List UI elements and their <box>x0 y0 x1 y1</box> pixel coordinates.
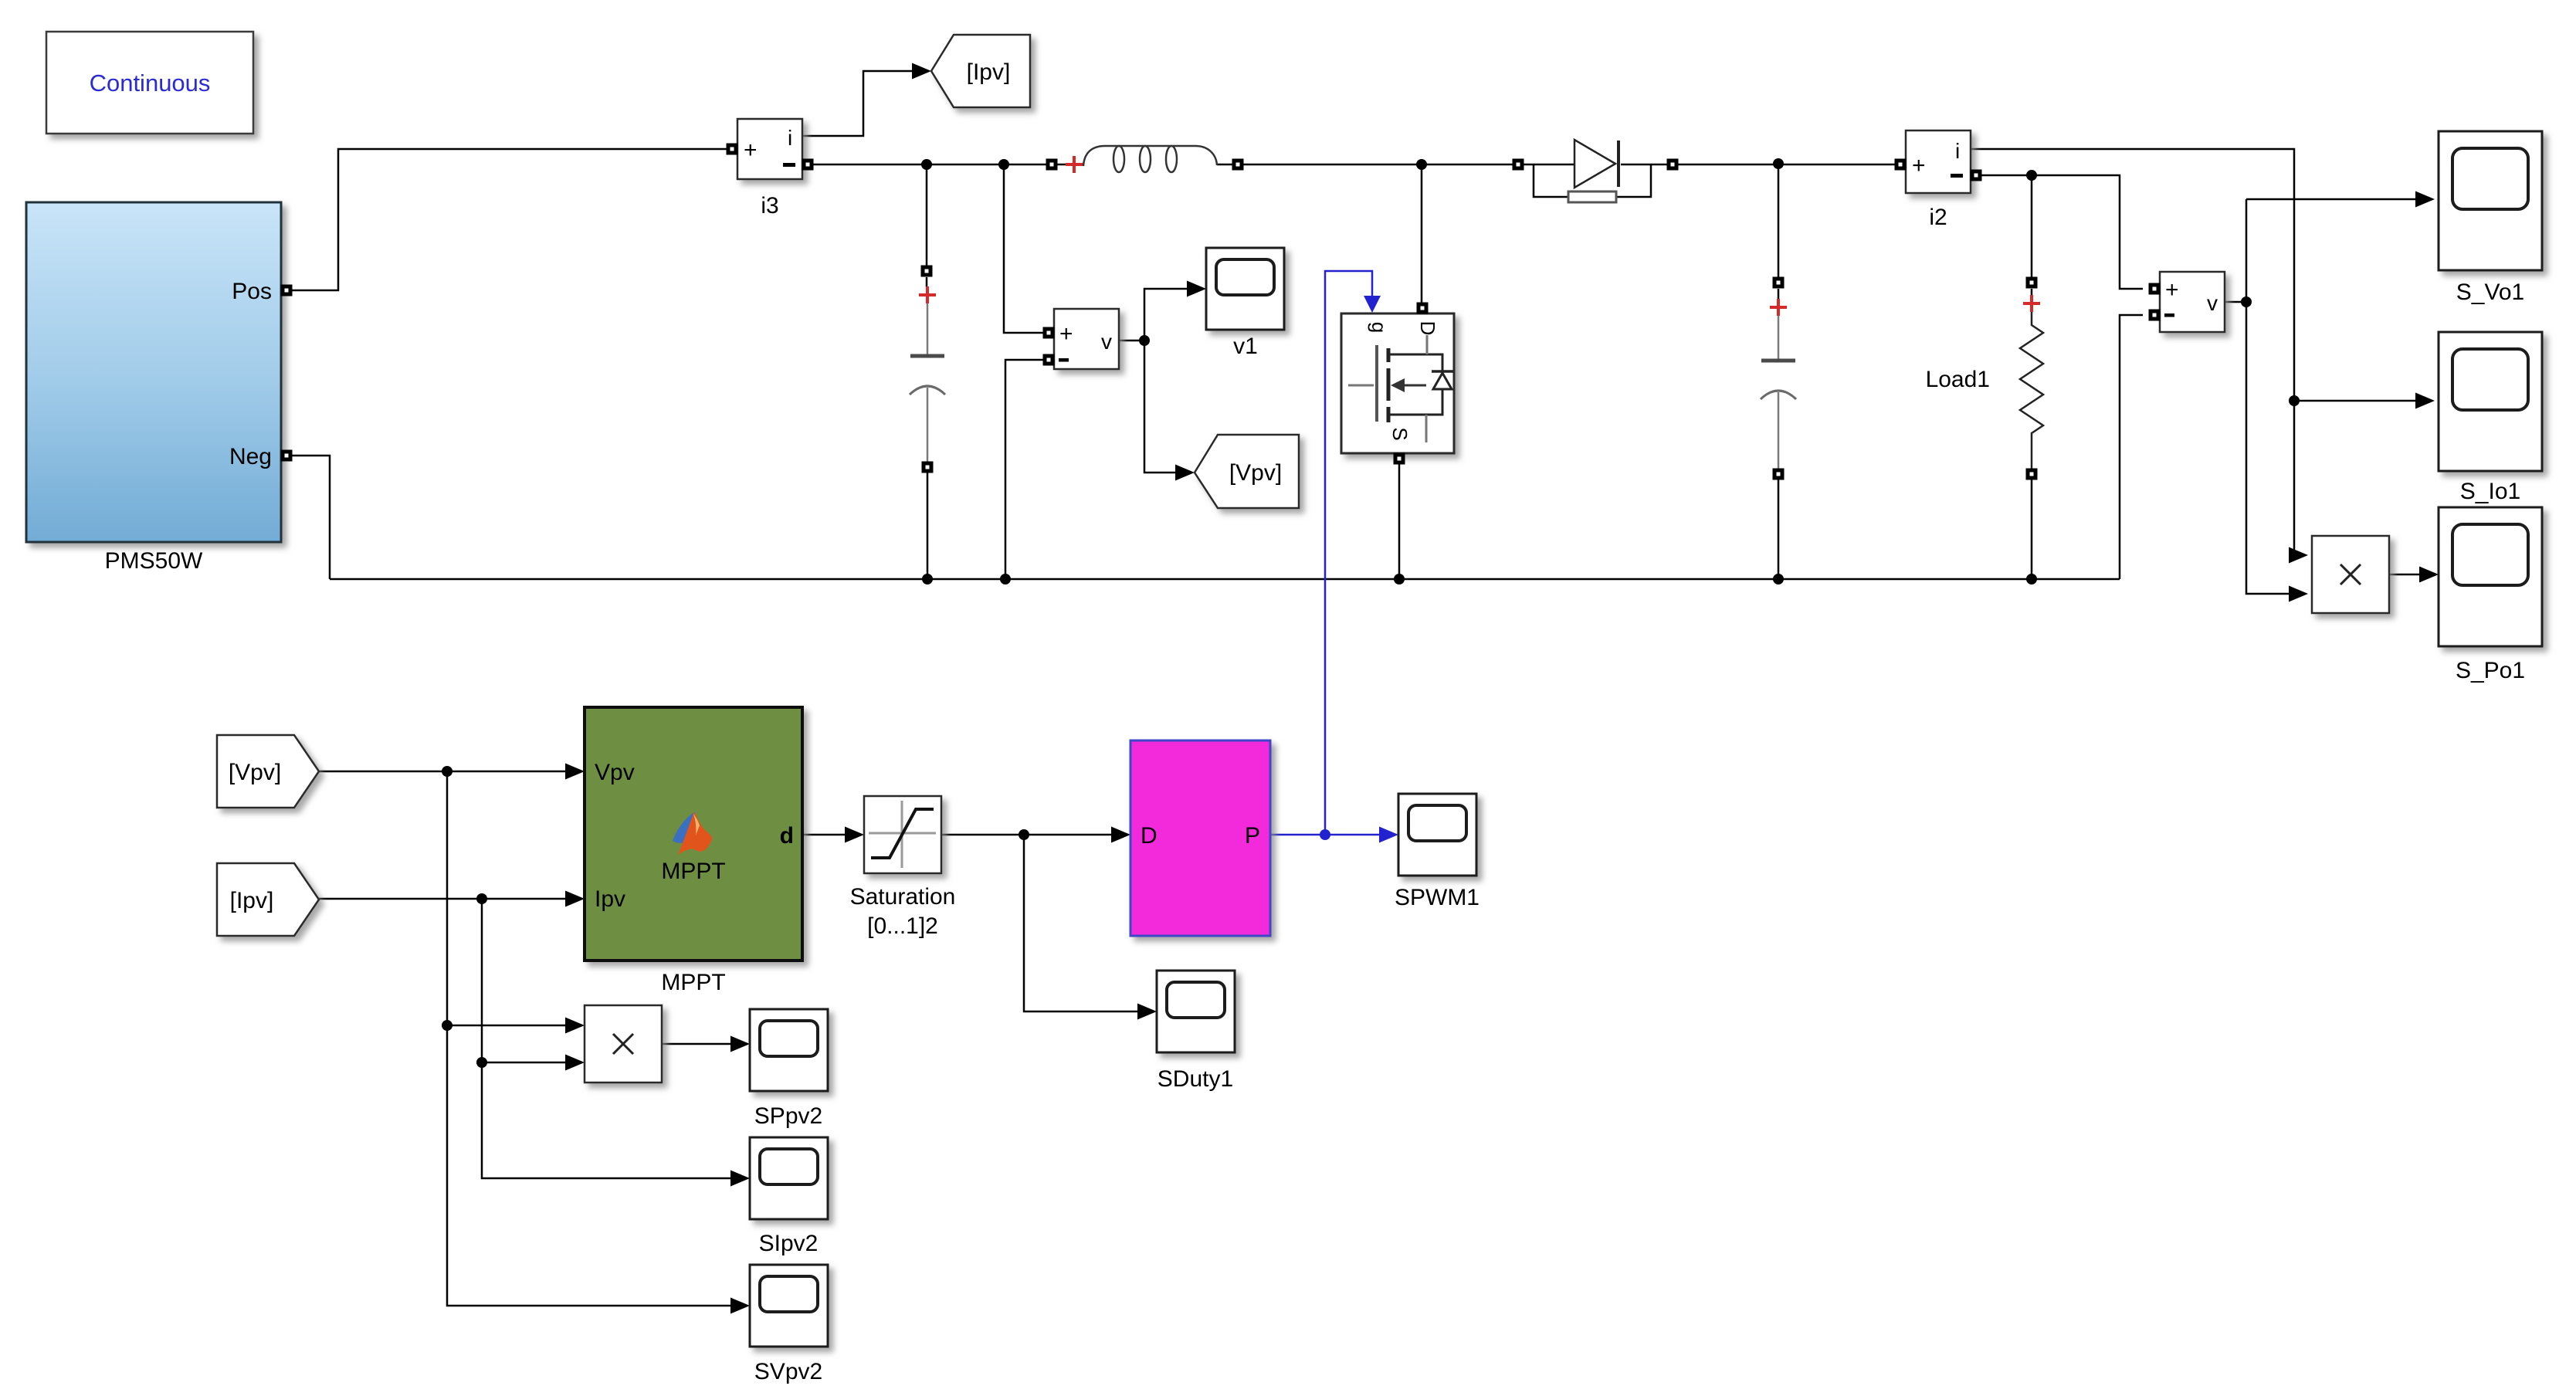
arrowhead into scope S_Vo1 <box>2415 191 2435 208</box>
svg-text:i: i <box>1955 139 1960 163</box>
wire Ipv column down <box>482 899 734 1178</box>
wire v1 out down to goto Vpv <box>1144 341 1179 473</box>
svg-text:d: d <box>780 823 794 849</box>
port v2 + <box>2149 283 2161 295</box>
svg-text:SPWM1: SPWM1 <box>1395 885 1480 910</box>
svg-text:D: D <box>1416 321 1439 336</box>
svg-text:v: v <box>1101 330 1112 354</box>
wire output capacitor bottom <box>1778 479 1780 579</box>
wire input capacitor bottom <box>927 472 929 579</box>
wire main bus segment diode to i2 <box>1621 164 1895 166</box>
junction blue gate node <box>1320 829 1330 840</box>
junction node i2minus-load <box>2026 170 2037 181</box>
wire input capacitor top <box>926 164 928 266</box>
arrowhead into goto Vpv <box>1175 465 1195 481</box>
resistor snubber (diode) <box>1568 191 1616 202</box>
port mosfet D <box>1417 303 1429 314</box>
scope SPWM1 <box>1398 794 1476 876</box>
capacitor C1 (input) <box>921 266 933 277</box>
arrowhead blue into mosfet gate <box>1364 296 1381 313</box>
junction node bus-v1 <box>998 159 1009 170</box>
arrowhead into product in2 <box>2289 586 2308 602</box>
PWM subsystem block <box>1130 740 1270 936</box>
svg-text:S: S <box>1388 427 1412 440</box>
from tag Vpv <box>217 735 319 808</box>
wire i2 minus to v2 + input <box>1981 175 2143 289</box>
arrowhead into SPpv2 <box>730 1036 750 1052</box>
wire Vpv column down <box>447 771 734 1306</box>
resistor Load1 <box>2026 277 2038 289</box>
wire diode snubber loop <box>1534 164 1568 197</box>
product block P2 <box>585 1005 662 1083</box>
wire Vpv branch to product2 in1 <box>447 1025 569 1027</box>
svg-text:S_Vo1: S_Vo1 <box>2456 280 2524 305</box>
wire v1 - input to ground bus <box>1005 360 1043 579</box>
matlab logo <box>673 812 696 843</box>
wire v1 output junction <box>1119 340 1144 342</box>
wire product2 to SPpv2 <box>662 1043 734 1045</box>
PV source block PMS50W <box>26 202 281 542</box>
svg-text:SPpv2: SPpv2 <box>754 1103 822 1129</box>
arrowhead into PWM D input <box>1111 827 1130 843</box>
arrowhead into scope v1 <box>1187 281 1206 297</box>
junction node ipv-prod <box>476 1057 487 1068</box>
wire main bus segment i3 to inductor <box>813 164 1083 166</box>
svg-text:Vpv: Vpv <box>595 760 635 785</box>
svg-text:+: + <box>744 137 758 163</box>
arrowhead into MPPT Ipv <box>565 891 585 907</box>
arrowhead into product2 in2 <box>565 1055 585 1071</box>
junction node gnd-cap2 <box>1773 574 1784 584</box>
subsystem MPPT <box>585 707 802 961</box>
wire output capacitor top <box>1778 164 1780 277</box>
svg-text:D: D <box>1141 823 1158 849</box>
svg-text:S_Po1: S_Po1 <box>2456 658 2525 683</box>
port i2 + <box>1895 159 1907 171</box>
svg-text:P: P <box>1245 823 1260 849</box>
wire Load1 top tap <box>2031 175 2033 277</box>
port mosfet S <box>1394 453 1405 465</box>
current measurement i3 <box>737 119 802 179</box>
scope SIpv2 <box>750 1137 828 1219</box>
arrowhead into goto Ipv <box>912 63 931 80</box>
port v2 - <box>2149 310 2161 321</box>
arrowhead into product2 in1 <box>565 1018 585 1034</box>
wire mosfet source to ground bus <box>1398 464 1401 579</box>
scope S_Io1 <box>2439 332 2542 471</box>
wire v1 out up to scope v1 <box>1144 289 1191 341</box>
svg-text:v: v <box>2207 291 2218 315</box>
wire main bus segment inductor to diode <box>1217 164 1574 166</box>
arrowhead into MPPT Vpv <box>565 764 585 780</box>
wire ground bus up to v2 - input <box>2120 315 2143 579</box>
svg-text:Pos: Pos <box>232 279 272 304</box>
wire bus tap to v1 + input <box>1004 164 1043 333</box>
svg-text:i3: i3 <box>761 193 778 219</box>
svg-text:MPPT: MPPT <box>661 859 725 884</box>
junction node v1-out <box>1139 335 1150 346</box>
junction node gnd-v1 <box>1000 574 1011 584</box>
scope S_Po1 <box>2439 507 2542 646</box>
junction node bus-cap1 <box>921 159 932 170</box>
saturation block <box>864 796 941 873</box>
svg-text:SVpv2: SVpv2 <box>754 1359 822 1384</box>
port i3 - <box>802 159 814 171</box>
svg-text:+: + <box>1059 321 1073 347</box>
from tag Ipv <box>217 863 319 936</box>
wire i2 i-output to S_Io1 column <box>1970 149 2294 555</box>
scope S_Vo1 <box>2439 131 2542 270</box>
wire product to scope S_Po1 <box>2389 574 2423 576</box>
goto tag Ipv <box>931 35 1030 107</box>
wire blue gate signal up to mosfet <box>1325 271 1372 835</box>
svg-text:v1: v1 <box>1233 334 1258 359</box>
wire mosfet drain to bus <box>1421 164 1423 303</box>
goto tag Vpv <box>1195 435 1299 508</box>
diode D1 <box>1513 159 1524 171</box>
arrowhead into scope S_Io1 <box>2415 393 2435 409</box>
mosfet Q1 <box>1341 313 1454 453</box>
voltage measurement v1 <box>1054 309 1119 369</box>
scope SVpv2 <box>750 1265 828 1347</box>
wire ground bus <box>330 578 2120 581</box>
junction node gnd-source <box>1394 574 1405 584</box>
port v1 + <box>1043 327 1055 339</box>
junction node gnd-load <box>2026 574 2037 584</box>
wire i3 i-output to goto Ipv <box>802 71 917 136</box>
wire v2 out to scope S_Vo1 <box>2246 198 2419 201</box>
arrowhead into scope S_Po1 <box>2419 567 2439 583</box>
junction node gnd-cap1 <box>922 574 933 584</box>
wire Ipv branch to product2 in2 <box>482 1062 569 1064</box>
svg-text:[Ipv]: [Ipv] <box>967 59 1011 85</box>
wire Neg down to ground bus <box>292 456 330 579</box>
wire MPPT d to Saturation <box>802 834 849 836</box>
wire Load1 bottom to ground bus <box>2031 479 2033 579</box>
product block P1 <box>2312 536 2389 613</box>
scope v1 <box>1206 248 1284 330</box>
svg-text:S_Io1: S_Io1 <box>2460 479 2520 504</box>
current measurement i2 <box>1906 130 1971 193</box>
wire i column to scope S_Io1 <box>2294 400 2419 402</box>
svg-text:+: + <box>2165 277 2179 303</box>
inductor L1 <box>1046 159 1058 171</box>
junction node vpv-prod <box>442 1020 452 1031</box>
wire Saturation to D input <box>941 834 1115 836</box>
port i2 - <box>1971 170 1982 181</box>
svg-text:i2: i2 <box>1929 205 1947 230</box>
svg-text:Ipv: Ipv <box>595 886 625 912</box>
svg-text:SIpv2: SIpv2 <box>759 1231 819 1256</box>
port i3 + <box>727 144 738 155</box>
svg-text:Continuous: Continuous <box>90 69 211 97</box>
junction node bus-cap2 <box>1773 158 1784 169</box>
junction node vpv-tap <box>442 766 452 777</box>
svg-text:Saturation: Saturation <box>850 884 956 910</box>
powergui block Continuous <box>46 32 253 134</box>
svg-text:[Ipv]: [Ipv] <box>230 888 274 913</box>
svg-text:Neg: Neg <box>229 444 272 469</box>
wire duty branch to SDuty1 <box>1024 835 1141 1011</box>
scope SPpv2 <box>750 1009 828 1091</box>
junction node v2-out <box>2241 296 2252 307</box>
svg-text:g: g <box>1368 322 1391 333</box>
wire blue P output to SPWM1 <box>1270 834 1383 836</box>
svg-text:i: i <box>788 126 792 150</box>
port Pos <box>281 285 293 296</box>
svg-text:[0...1]2: [0...1]2 <box>867 913 938 939</box>
wire from-Ipv to MPPT Ipv input <box>319 898 569 900</box>
svg-text:[Vpv]: [Vpv] <box>1229 460 1282 486</box>
svg-text:PMS50W: PMS50W <box>105 548 203 574</box>
voltage measurement v2 <box>2160 272 2225 332</box>
arrowhead into SIpv2 <box>730 1171 750 1187</box>
junction node i-column <box>2289 395 2300 406</box>
svg-text:SDuty1: SDuty1 <box>1158 1066 1233 1092</box>
svg-text:MPPT: MPPT <box>661 970 725 995</box>
svg-text:[Vpv]: [Vpv] <box>229 760 281 785</box>
wire Pos to i3+ <box>292 149 727 290</box>
arrowhead blue into SPWM1 <box>1379 827 1398 843</box>
port v1 - <box>1043 354 1055 366</box>
arrowhead into product in1 <box>2289 547 2308 564</box>
scope SDuty1 <box>1157 971 1235 1052</box>
arrowhead into Saturation <box>845 827 864 843</box>
arrowhead into SDuty1 <box>1137 1004 1157 1020</box>
junction node duty-tap <box>1019 829 1029 840</box>
capacitor C2 (output) <box>1773 277 1785 289</box>
junction node bus-drain <box>1416 159 1427 170</box>
wire from-Vpv to MPPT Vpv input <box>319 771 569 773</box>
wire v2 output column <box>2225 301 2246 303</box>
svg-text:+: + <box>1912 153 1926 178</box>
svg-text:Load1: Load1 <box>1926 367 1990 392</box>
arrowhead into SVpv2 <box>730 1298 750 1314</box>
port Neg <box>281 450 293 462</box>
junction node ipv-tap <box>476 893 487 904</box>
